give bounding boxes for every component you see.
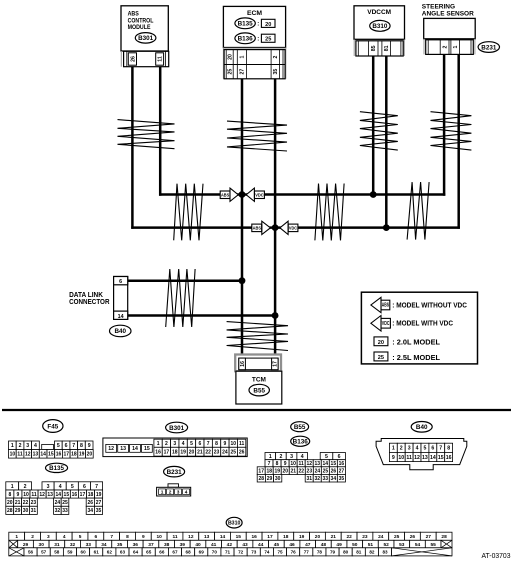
connector view B55/B136 <box>257 422 345 482</box>
svg-text:11: 11 <box>299 461 305 467</box>
svg-text:25: 25 <box>265 37 271 43</box>
svg-text:14: 14 <box>430 455 436 461</box>
svg-text:20: 20 <box>228 54 234 60</box>
svg-text:23: 23 <box>31 500 37 506</box>
svg-text:24: 24 <box>222 450 228 456</box>
svg-text:7: 7 <box>72 443 75 449</box>
pin 14 (DLC) <box>114 311 128 320</box>
svg-text:26: 26 <box>88 500 94 506</box>
svg-text:2: 2 <box>19 443 22 449</box>
svg-text:10: 10 <box>157 534 163 540</box>
wire: ECM pin35 vertical (to TCM pin17) <box>274 79 277 359</box>
svg-text:29: 29 <box>23 542 29 548</box>
svg-text:30: 30 <box>275 476 281 482</box>
TCM (box) with designator B55 <box>236 371 282 404</box>
svg-text:58: 58 <box>54 550 60 555</box>
svg-text:17: 17 <box>267 534 273 540</box>
svg-text:20: 20 <box>7 500 13 506</box>
svg-text:2: 2 <box>273 55 279 58</box>
svg-text:25: 25 <box>394 534 400 540</box>
svg-text:16: 16 <box>251 534 257 540</box>
svg-text:9: 9 <box>224 441 227 447</box>
svg-text:15: 15 <box>64 492 70 498</box>
svg-text:13: 13 <box>204 534 210 540</box>
wire: ECM pin27 vertical (to TCM pin16) <box>241 79 244 359</box>
svg-text:32: 32 <box>314 476 320 482</box>
tag arrow ABS (row1, model without VDC) <box>220 188 238 201</box>
svg-text:49: 49 <box>336 542 342 548</box>
wire: steering pin1 vertical drop <box>457 54 460 228</box>
svg-text:11: 11 <box>158 56 164 62</box>
svg-text:26: 26 <box>239 450 245 456</box>
svg-text:30: 30 <box>39 542 45 548</box>
svg-text:28: 28 <box>441 534 447 540</box>
svg-text:15: 15 <box>438 455 444 461</box>
svg-text:: 2.5L MODEL: : 2.5L MODEL <box>392 353 440 362</box>
svg-text:1: 1 <box>11 484 14 490</box>
svg-text:16: 16 <box>446 455 452 461</box>
svg-text:ECM: ECM <box>247 10 262 17</box>
svg-text:B135: B135 <box>238 21 254 28</box>
junction: row1 x ECM pin27 wire <box>239 191 246 198</box>
svg-text:8: 8 <box>126 534 129 540</box>
connector designator B136 (oval) <box>235 33 255 44</box>
tag arrow ABS (row2, model without VDC) <box>252 221 271 234</box>
svg-text:25: 25 <box>62 500 68 506</box>
svg-text:25: 25 <box>230 450 236 456</box>
svg-text:2: 2 <box>24 484 27 490</box>
wire: VDCCM pin85 vertical drop <box>372 56 375 196</box>
svg-text:B231: B231 <box>167 469 183 476</box>
svg-text:12: 12 <box>188 534 194 540</box>
svg-text:8: 8 <box>215 441 218 447</box>
svg-text:12: 12 <box>414 455 420 461</box>
svg-text:9: 9 <box>88 443 91 449</box>
svg-text:8: 8 <box>80 443 83 449</box>
svg-text:2: 2 <box>279 454 282 460</box>
svg-text:18: 18 <box>283 534 289 540</box>
svg-text:VDC: VDC <box>255 192 264 197</box>
svg-text:47: 47 <box>305 542 311 548</box>
svg-text:28: 28 <box>7 508 13 514</box>
svg-text:: 2.0L MODEL: : 2.0L MODEL <box>392 338 440 347</box>
svg-text:1: 1 <box>161 489 164 495</box>
svg-text:27: 27 <box>426 534 432 540</box>
svg-text:17: 17 <box>63 452 69 458</box>
svg-text:B40: B40 <box>114 328 126 335</box>
separator line between schematic and connector views <box>2 409 511 411</box>
svg-text:34: 34 <box>88 508 94 514</box>
svg-text:41: 41 <box>211 542 217 548</box>
svg-text:7: 7 <box>207 441 210 447</box>
svg-text:12: 12 <box>39 492 45 498</box>
svg-text:29: 29 <box>267 476 273 482</box>
svg-text:ABS: ABS <box>221 192 230 198</box>
svg-text:20: 20 <box>315 534 321 540</box>
svg-text:31: 31 <box>31 508 37 514</box>
svg-text:9: 9 <box>17 492 20 498</box>
pin 16 (TCM) <box>239 358 246 370</box>
svg-text:6: 6 <box>95 534 98 540</box>
svg-text:18: 18 <box>172 450 178 456</box>
svg-text:74: 74 <box>264 550 270 555</box>
svg-text:17: 17 <box>258 468 264 474</box>
svg-text:B55: B55 <box>253 387 265 394</box>
svg-text:: MODEL WITH VDC: : MODEL WITH VDC <box>392 319 453 328</box>
pin 2 (steering sensor) <box>442 46 448 49</box>
legend: VDC arrow = MODEL WITH VDC <box>371 316 454 332</box>
svg-text:2: 2 <box>400 446 403 452</box>
svg-text:13: 13 <box>33 452 39 458</box>
svg-text:22: 22 <box>205 450 211 456</box>
twisted-pair mark on steering sensor wire pair <box>431 112 472 150</box>
svg-text:2: 2 <box>165 441 168 447</box>
svg-text:4: 4 <box>301 454 304 460</box>
ECM (box) <box>223 6 285 47</box>
svg-text:9: 9 <box>284 461 287 467</box>
steering angle sensor label <box>422 4 474 18</box>
svg-text:53: 53 <box>399 542 405 548</box>
svg-text:ABS: ABS <box>253 226 262 232</box>
svg-text:20: 20 <box>87 452 93 458</box>
svg-text:66: 66 <box>159 550 165 555</box>
svg-text:24: 24 <box>378 534 384 540</box>
svg-text:68: 68 <box>186 550 192 555</box>
svg-text:8: 8 <box>8 492 11 498</box>
connector designator B231 (oval) <box>478 42 499 53</box>
svg-text:26: 26 <box>410 534 416 540</box>
pin 81 (VDCCM) <box>384 45 390 51</box>
svg-text:24: 24 <box>55 500 61 506</box>
svg-text:67: 67 <box>172 550 178 555</box>
svg-text:29: 29 <box>15 508 21 514</box>
svg-text:23: 23 <box>362 534 368 540</box>
svg-text:20: 20 <box>378 340 384 346</box>
svg-text:F45: F45 <box>47 423 58 430</box>
svg-text:21: 21 <box>291 468 297 474</box>
svg-text:46: 46 <box>289 542 295 548</box>
svg-text:8: 8 <box>447 446 450 452</box>
svg-text:19: 19 <box>180 450 186 456</box>
wire: ABS pin11 vertical drop <box>159 67 162 196</box>
value 25 (B136 2.5L) <box>257 34 275 43</box>
svg-text:51: 51 <box>368 542 374 548</box>
tag arrow VDC (row1, model with VDC) <box>246 188 264 201</box>
svg-text:59: 59 <box>67 550 73 555</box>
svg-text:B310: B310 <box>228 521 241 527</box>
svg-text:13: 13 <box>422 455 428 461</box>
wire: DLC pin6 horizontal <box>128 279 244 282</box>
wire: steering pin2 vertical drop <box>443 54 446 195</box>
svg-text:30: 30 <box>23 508 29 514</box>
svg-text:32: 32 <box>70 542 76 548</box>
svg-text:22: 22 <box>23 500 29 506</box>
svg-text:6: 6 <box>119 279 122 285</box>
svg-text:10: 10 <box>230 441 236 447</box>
svg-text:70: 70 <box>212 550 218 555</box>
svg-text:4: 4 <box>185 489 188 495</box>
svg-text:3: 3 <box>177 489 180 495</box>
svg-text:MODULE: MODULE <box>128 24 151 31</box>
svg-text:71: 71 <box>225 550 231 555</box>
svg-text:50: 50 <box>352 542 358 548</box>
svg-text:B136: B136 <box>293 439 309 446</box>
svg-text:80: 80 <box>343 550 349 555</box>
svg-text:73: 73 <box>251 550 257 555</box>
svg-text:14: 14 <box>40 452 46 458</box>
svg-text:2: 2 <box>169 489 172 495</box>
svg-text:1: 1 <box>240 55 246 58</box>
twisted-pair mark on ABS wire pair <box>118 120 175 149</box>
svg-text:27: 27 <box>96 500 102 506</box>
label DATA LINK CONNECTOR <box>69 290 110 306</box>
svg-text:B135: B135 <box>49 465 64 472</box>
svg-text:57: 57 <box>41 550 47 555</box>
svg-text:CONNECTOR: CONNECTOR <box>69 297 110 306</box>
svg-text:1: 1 <box>11 443 14 449</box>
VDCCM connector strip <box>354 39 404 56</box>
svg-text:17: 17 <box>273 361 279 367</box>
svg-text:36: 36 <box>133 542 139 548</box>
pin 85 (VDCCM) <box>371 45 377 51</box>
svg-text:23: 23 <box>214 450 220 456</box>
pin 1 (steering sensor) <box>453 46 459 49</box>
svg-text:5: 5 <box>71 484 74 490</box>
svg-text:3: 3 <box>173 441 176 447</box>
svg-text:3: 3 <box>408 446 411 452</box>
svg-text:82: 82 <box>369 550 375 555</box>
svg-text:24: 24 <box>315 468 321 474</box>
svg-text:27: 27 <box>339 468 345 474</box>
svg-text:5: 5 <box>79 534 82 540</box>
svg-text:31: 31 <box>306 476 312 482</box>
wire: bus row 2 horizontal (ABS26-ECM35-VDCCM81-steering1) <box>131 226 460 229</box>
svg-text::: : <box>257 37 259 43</box>
steering sensor connector strip <box>424 39 475 55</box>
svg-text:32: 32 <box>55 508 61 514</box>
svg-text:77: 77 <box>304 550 310 555</box>
svg-text:6: 6 <box>338 454 341 460</box>
svg-text:27: 27 <box>240 69 246 75</box>
svg-text:15: 15 <box>331 461 337 467</box>
pin 27 (ECM B136) <box>240 69 246 75</box>
wire: bus row 1 horizontal (ABS11-ECM27-VDCCM85-steering2) <box>159 193 445 196</box>
svg-text:26: 26 <box>331 468 337 474</box>
svg-text:10: 10 <box>398 455 404 461</box>
svg-text:VDCCM: VDCCM <box>367 9 391 16</box>
svg-text:25: 25 <box>323 468 329 474</box>
svg-text:11: 11 <box>239 441 245 447</box>
pin 1 (ECM B135) <box>240 55 246 58</box>
svg-text:18: 18 <box>88 492 94 498</box>
svg-text:3: 3 <box>26 443 29 449</box>
svg-text:ANGLE SENSOR: ANGLE SENSOR <box>422 11 474 18</box>
svg-text:45: 45 <box>274 542 280 548</box>
svg-text:5: 5 <box>57 443 60 449</box>
svg-text:38: 38 <box>164 542 170 548</box>
svg-text:5: 5 <box>190 441 193 447</box>
svg-text:2: 2 <box>31 534 34 540</box>
twisted-pair mark on bus rows 1-2 (ECM to VDCCM) <box>315 184 344 241</box>
svg-text:83: 83 <box>382 550 388 555</box>
svg-text:13: 13 <box>47 492 53 498</box>
svg-text:7: 7 <box>268 461 271 467</box>
svg-text:35: 35 <box>96 508 102 514</box>
svg-text:6: 6 <box>198 441 201 447</box>
svg-text:14: 14 <box>323 461 329 467</box>
svg-text:13: 13 <box>120 446 126 452</box>
svg-text:33: 33 <box>323 476 329 482</box>
wire: DLC pin14 horizontal <box>128 314 277 317</box>
connector designator B40 (oval) <box>110 325 132 337</box>
connector view B40 (data link connector) <box>376 422 467 470</box>
svg-text:76: 76 <box>291 550 297 555</box>
svg-text:37: 37 <box>148 542 154 548</box>
svg-text:2: 2 <box>442 46 448 49</box>
svg-text:19: 19 <box>96 492 102 498</box>
svg-text:B136: B136 <box>238 36 254 43</box>
junction: DLC pin14 wire x ECM pin35 wire <box>272 312 279 319</box>
svg-text:31: 31 <box>54 542 60 548</box>
svg-text:6: 6 <box>83 484 86 490</box>
ECM connector strip <box>223 48 285 79</box>
svg-text:6: 6 <box>65 443 68 449</box>
connector designator B301 (oval in ABS box) <box>135 33 156 44</box>
pin 2 (ECM B135) <box>273 55 279 58</box>
junction: DLC pin6 wire x ECM pin27 wire <box>239 277 246 284</box>
svg-text:28: 28 <box>259 476 265 482</box>
legend: 20 = 2.0L MODEL <box>374 337 440 347</box>
svg-text:4: 4 <box>59 484 62 490</box>
svg-text:63: 63 <box>120 550 126 555</box>
svg-text:3: 3 <box>290 454 293 460</box>
svg-text:3: 3 <box>47 484 50 490</box>
svg-text:14: 14 <box>132 446 138 452</box>
junction: row2 x ECM pin35 wire <box>272 224 279 231</box>
svg-text:42: 42 <box>227 542 233 548</box>
svg-text:18: 18 <box>266 468 272 474</box>
connector view B310 <box>9 517 452 556</box>
svg-text:16: 16 <box>56 452 62 458</box>
svg-text:55: 55 <box>430 542 436 548</box>
twisted-pair mark on ECM wire pair <box>227 121 287 151</box>
svg-text:17: 17 <box>164 450 170 456</box>
svg-text:5: 5 <box>325 454 328 460</box>
svg-text:AT-03703: AT-03703 <box>482 551 511 560</box>
wire: ABS pin26 vertical drop <box>131 67 134 229</box>
svg-text:7: 7 <box>439 446 442 452</box>
svg-text:5: 5 <box>424 446 427 452</box>
svg-text:81: 81 <box>356 550 362 555</box>
svg-text:11: 11 <box>406 455 412 461</box>
svg-text:B301: B301 <box>138 35 154 42</box>
svg-text:85: 85 <box>371 45 377 51</box>
svg-text:35: 35 <box>273 69 279 75</box>
twisted-pair mark on DLC wire pair <box>166 269 195 327</box>
svg-text:20: 20 <box>189 450 195 456</box>
svg-text:12: 12 <box>108 446 114 452</box>
svg-text:1: 1 <box>15 534 18 540</box>
tag arrow VDC (row2, model with VDC) <box>280 221 298 234</box>
svg-text:15: 15 <box>144 446 150 452</box>
svg-text:4: 4 <box>34 443 37 449</box>
svg-text:26: 26 <box>130 56 136 62</box>
legend: ABS arrow = MODEL WITHOUT VDC <box>371 297 468 312</box>
svg-text:15: 15 <box>236 534 242 540</box>
svg-text:4: 4 <box>63 534 66 540</box>
svg-text:B55: B55 <box>294 424 306 431</box>
svg-text:64: 64 <box>133 550 139 555</box>
svg-text:33: 33 <box>62 508 68 514</box>
svg-text:9: 9 <box>142 534 145 540</box>
twisted-pair mark on TCM wire pair <box>227 322 288 351</box>
svg-text:16: 16 <box>240 361 246 367</box>
svg-text:19: 19 <box>79 452 85 458</box>
svg-text:10: 10 <box>10 452 16 458</box>
svg-text:69: 69 <box>199 550 205 555</box>
svg-text:11: 11 <box>172 534 177 540</box>
svg-text:17: 17 <box>80 492 86 498</box>
svg-text:7: 7 <box>95 484 98 490</box>
svg-text:39: 39 <box>180 542 186 548</box>
svg-text:18: 18 <box>71 452 77 458</box>
svg-text:81: 81 <box>384 45 390 51</box>
svg-text:1: 1 <box>453 46 459 49</box>
twisted-pair mark on VDCCM wire pair <box>360 112 398 150</box>
svg-text:B310: B310 <box>372 23 388 30</box>
pin 26 (ABS) <box>128 53 136 65</box>
svg-text:61: 61 <box>94 550 100 555</box>
connector designator B135 (oval) <box>235 18 255 29</box>
svg-text:B301: B301 <box>169 425 185 432</box>
svg-text:14: 14 <box>55 492 61 498</box>
junction: row2 x VDCCM pin81 wire <box>383 224 390 231</box>
connector view B135 <box>6 463 103 514</box>
connector designator B310 (oval in VDCCM) <box>370 20 390 31</box>
svg-text:16: 16 <box>155 450 161 456</box>
svg-text:11: 11 <box>31 492 37 498</box>
pin 11 (ABS) <box>156 53 164 65</box>
connector view B301 <box>103 422 247 456</box>
svg-text:B40: B40 <box>416 424 428 431</box>
svg-text:56: 56 <box>28 550 34 555</box>
svg-text:10: 10 <box>23 492 29 498</box>
svg-text:4: 4 <box>182 441 185 447</box>
svg-text:7: 7 <box>110 534 113 540</box>
TCM connector strip <box>235 355 281 372</box>
pin 17 (TCM) <box>272 358 279 370</box>
svg-text:25: 25 <box>228 69 234 75</box>
svg-text::: : <box>257 22 259 28</box>
svg-text:10: 10 <box>290 461 296 467</box>
svg-text:25: 25 <box>378 355 384 361</box>
svg-text:75: 75 <box>277 550 283 555</box>
svg-text:12: 12 <box>25 452 31 458</box>
svg-text:43: 43 <box>242 542 248 548</box>
svg-text:54: 54 <box>415 542 421 548</box>
svg-text:VDC: VDC <box>382 321 390 327</box>
svg-text:ABS: ABS <box>382 303 390 309</box>
connector view B231 <box>157 466 191 496</box>
svg-text:65: 65 <box>146 550 152 555</box>
svg-text:34: 34 <box>101 542 107 548</box>
svg-text:15: 15 <box>48 452 54 458</box>
svg-text:12: 12 <box>306 461 312 467</box>
svg-text:: MODEL WITHOUT VDC: : MODEL WITHOUT VDC <box>392 300 467 309</box>
svg-text:11: 11 <box>17 452 23 458</box>
svg-text:60: 60 <box>81 550 87 555</box>
svg-text:48: 48 <box>321 542 327 548</box>
